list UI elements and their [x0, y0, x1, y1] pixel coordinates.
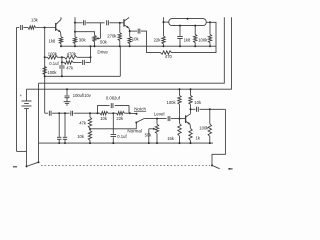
node — [129, 45, 131, 47]
wire stage rail — [61, 45, 216, 47]
capacitor C1 input — [21, 25, 23, 30]
node — [58, 112, 60, 114]
wire — [191, 108, 196, 110]
node — [61, 56, 63, 58]
resistor R9 47k — [64, 61, 73, 64]
resistor R22 100k fork — [208, 22, 211, 46]
transistor Q1 — [56, 17, 61, 37]
node — [179, 25, 181, 27]
label 10k — [194, 100, 202, 105]
wire — [171, 118, 186, 120]
wire — [145, 118, 167, 120]
switch S2 arm — [136, 118, 144, 122]
node — [66, 88, 68, 90]
svg-text:100k: 100k — [167, 100, 177, 105]
node — [179, 45, 181, 47]
wire fork right — [206, 21, 210, 23]
node — [60, 45, 62, 47]
label 270k — [107, 34, 117, 39]
wire — [45, 112, 48, 114]
switch S3 jack arm — [212, 165, 220, 168]
potentiometer VR2 50k Level — [149, 119, 159, 144]
wire dashed boundary — [41, 164, 210, 166]
battery BT1 — [20, 89, 32, 108]
svg-text:100k: 100k — [198, 37, 208, 42]
resistor R2 1k8 emitter — [59, 37, 62, 44]
label 0.1uf — [49, 61, 59, 66]
wire bus83 to rail — [38, 83, 40, 162]
svg-text:470: 470 — [165, 54, 173, 59]
label 15k — [167, 136, 175, 141]
resistor R5 10k emitter — [128, 30, 131, 46]
svg-text:1k8: 1k8 — [184, 37, 191, 42]
node — [129, 112, 131, 114]
svg-text:22k: 22k — [154, 37, 162, 42]
node — [89, 142, 91, 144]
capacitor C9 100uf/10v — [57, 113, 61, 144]
wire — [109, 22, 124, 24]
wire — [130, 112, 137, 115]
capacitor C2 — [83, 20, 85, 25]
node — [44, 75, 46, 77]
capacitor C16 — [63, 113, 67, 144]
node — [112, 142, 114, 144]
node — [209, 45, 211, 47]
wire stub 75 — [74, 17, 76, 37]
svg-text:100k: 100k — [47, 70, 57, 75]
label 50k — [145, 133, 153, 138]
label 0.1uf — [117, 134, 127, 139]
transistor Q3 — [186, 114, 191, 129]
resistor R13 47k — [88, 113, 91, 128]
label 50k — [100, 40, 108, 45]
capacitor C13 output — [197, 107, 199, 112]
wire — [89, 140, 91, 143]
node — [74, 31, 76, 33]
label 1k — [196, 136, 201, 141]
label 100k — [48, 52, 58, 57]
ground — [64, 102, 71, 105]
switch S3 contact — [228, 168, 232, 170]
node — [194, 45, 196, 47]
wire — [74, 112, 100, 114]
capacitor C15 decouple — [65, 96, 70, 102]
resistor R7 100k — [48, 56, 58, 59]
capacitor C3 — [107, 20, 109, 25]
svg-text:30k: 30k — [79, 38, 87, 43]
resistor R8 470k — [64, 56, 77, 59]
wire — [62, 61, 64, 63]
label 22k — [154, 37, 162, 42]
wire fork left — [164, 17, 169, 36]
capacitor C14 fork — [177, 26, 183, 47]
wire battery negative — [26, 109, 28, 167]
svg-text:Normal: Normal — [127, 128, 142, 133]
svg-text:0.1uf: 0.1uf — [117, 134, 127, 139]
resistor R18 1k emitter — [189, 128, 192, 143]
node A junction — [44, 27, 46, 29]
capacitor C5 — [83, 60, 85, 65]
resistor R6 470 — [161, 51, 172, 54]
node — [179, 142, 181, 144]
node — [163, 45, 165, 47]
node — [97, 112, 99, 114]
svg-text:47k: 47k — [79, 121, 87, 126]
label Notch — [134, 106, 146, 111]
node — [209, 21, 211, 23]
wire column 44.7 — [44, 28, 46, 114]
node switch contact notch — [136, 113, 138, 115]
svg-text:0.1uf: 0.1uf — [49, 61, 59, 66]
node — [90, 56, 92, 58]
wire — [124, 112, 130, 114]
label Normal — [127, 128, 142, 133]
node — [194, 25, 196, 27]
svg-text:100k: 100k — [199, 126, 209, 131]
wire — [60, 44, 62, 47]
wire — [75, 22, 83, 24]
node — [209, 142, 211, 144]
label 100uf/10v — [73, 93, 92, 98]
svg-text:10k: 10k — [194, 100, 202, 105]
wire — [74, 44, 76, 47]
svg-text:270k: 270k — [107, 34, 117, 39]
resistor R16 10k collector — [189, 89, 192, 114]
svg-text:1k8: 1k8 — [49, 39, 56, 44]
svg-text:22k: 22k — [116, 116, 124, 121]
wire — [89, 128, 91, 130]
label 1k8 — [49, 39, 56, 44]
svg-text:0.082uf: 0.082uf — [106, 95, 121, 100]
label 1k8 — [184, 37, 191, 42]
node — [119, 45, 121, 47]
capacitor C12 — [168, 116, 170, 121]
potentiometer VR1 50k Drive — [93, 23, 101, 42]
node switch contact — [26, 165, 28, 167]
resistor R14 10k — [88, 130, 91, 140]
wire 470 to fork — [172, 22, 217, 52]
svg-text:50k: 50k — [100, 40, 108, 45]
label Level — [154, 112, 165, 117]
resistor R21 1k8 fork — [194, 26, 197, 47]
wire ground rail — [39, 142, 214, 144]
node — [148, 142, 150, 144]
svg-text:47k: 47k — [66, 65, 74, 70]
svg-text:Drive: Drive — [97, 49, 108, 54]
node — [156, 142, 158, 144]
node — [61, 61, 63, 63]
capacitor C6 0.1uf — [59, 62, 65, 76]
resonator Y1 fork — [169, 19, 206, 26]
node — [74, 22, 76, 24]
wire — [73, 61, 82, 63]
svg-text:15k: 15k — [167, 136, 175, 141]
wire output route — [212, 109, 225, 165]
resistor R20 22k drive — [162, 36, 165, 46]
node — [64, 112, 66, 114]
svg-text:10k: 10k — [132, 36, 140, 41]
svg-text:Notch: Notch — [134, 106, 146, 111]
wire input top — [17, 27, 20, 29]
svg-text:470k: 470k — [67, 51, 77, 56]
label 470 — [165, 54, 173, 59]
node — [190, 88, 192, 90]
node — [89, 112, 91, 114]
node — [119, 22, 121, 24]
label 22k — [116, 116, 124, 121]
label 47k — [79, 121, 87, 126]
wire bus 89 bottom — [27, 17, 232, 89]
resistor R1 13k — [28, 26, 36, 29]
wire jog to drive pot — [75, 32, 95, 36]
switch S1 open contact — [13, 166, 17, 168]
node — [179, 88, 181, 90]
label 100k — [47, 70, 57, 75]
node — [89, 128, 91, 130]
wire — [94, 42, 96, 47]
node — [190, 142, 192, 144]
wire input vertical — [17, 28, 27, 152]
resistor R11 10k — [100, 112, 108, 115]
wire — [77, 56, 91, 58]
node — [94, 45, 96, 47]
switch S1 arm — [27, 162, 39, 166]
capacitor C7 — [49, 111, 51, 116]
wire — [85, 61, 90, 63]
label 10k — [77, 134, 85, 139]
svg-text:13k: 13k — [31, 17, 39, 22]
wire column 120.3 — [119, 46, 121, 76]
label 10k — [132, 36, 140, 41]
wire — [61, 57, 63, 62]
wire — [58, 56, 65, 58]
wire — [130, 30, 137, 32]
label 470k — [67, 51, 77, 56]
node output jack — [211, 164, 213, 166]
capacitor C10 0.082uf bridge — [98, 103, 130, 113]
wire bus 76 — [45, 75, 121, 77]
node — [44, 56, 46, 58]
node — [187, 18, 189, 20]
label 13k — [31, 17, 39, 22]
svg-text:10k: 10k — [77, 134, 85, 139]
resistor R10 100k vertical — [43, 66, 46, 74]
capacitor C4 — [138, 29, 140, 34]
node — [74, 45, 76, 47]
transistor Q2 — [124, 17, 130, 31]
wire — [108, 112, 116, 114]
wire — [66, 89, 68, 95]
wire — [52, 112, 70, 114]
node — [156, 118, 158, 120]
node switch contact normal — [135, 122, 137, 124]
wire bus 83 top — [39, 17, 225, 83]
node — [90, 45, 92, 47]
node — [163, 21, 165, 23]
svg-text:50k: 50k — [145, 133, 153, 138]
wire — [23, 27, 28, 29]
label 10k — [100, 116, 108, 121]
node — [190, 108, 192, 110]
label 100k — [198, 37, 208, 42]
wire — [45, 56, 48, 58]
svg-text:100uf/10v: 100uf/10v — [73, 93, 92, 98]
resistor R3 30k — [73, 37, 76, 44]
capacitor C8 — [71, 111, 73, 116]
capacitor C11 0.1uf — [111, 113, 117, 143]
node — [61, 75, 63, 77]
label Drive — [97, 49, 108, 54]
label 30k — [79, 38, 87, 43]
wire — [200, 108, 226, 110]
svg-text:Level: Level — [154, 112, 165, 117]
wire — [36, 27, 56, 29]
resistor R4 270k — [118, 23, 121, 46]
resistor R19 100k load — [208, 109, 211, 143]
node — [179, 118, 181, 120]
wire to 470 loop — [141, 31, 161, 52]
node — [112, 112, 114, 114]
label 100k — [199, 126, 209, 131]
svg-text:100k: 100k — [48, 52, 58, 57]
node switch pole — [38, 161, 40, 163]
label 47k — [66, 65, 74, 70]
label 0.082uf — [106, 95, 121, 100]
label 100k — [167, 100, 177, 105]
resistor R17 15k — [178, 119, 181, 144]
resistor R15 100k bias — [178, 89, 181, 118]
svg-text:10k: 10k — [100, 116, 108, 121]
resistor R12 22k — [116, 112, 124, 115]
wire bypass normal — [90, 123, 136, 129]
wire — [86, 22, 104, 24]
node — [209, 108, 211, 110]
wire column 90.5 — [90, 46, 92, 62]
